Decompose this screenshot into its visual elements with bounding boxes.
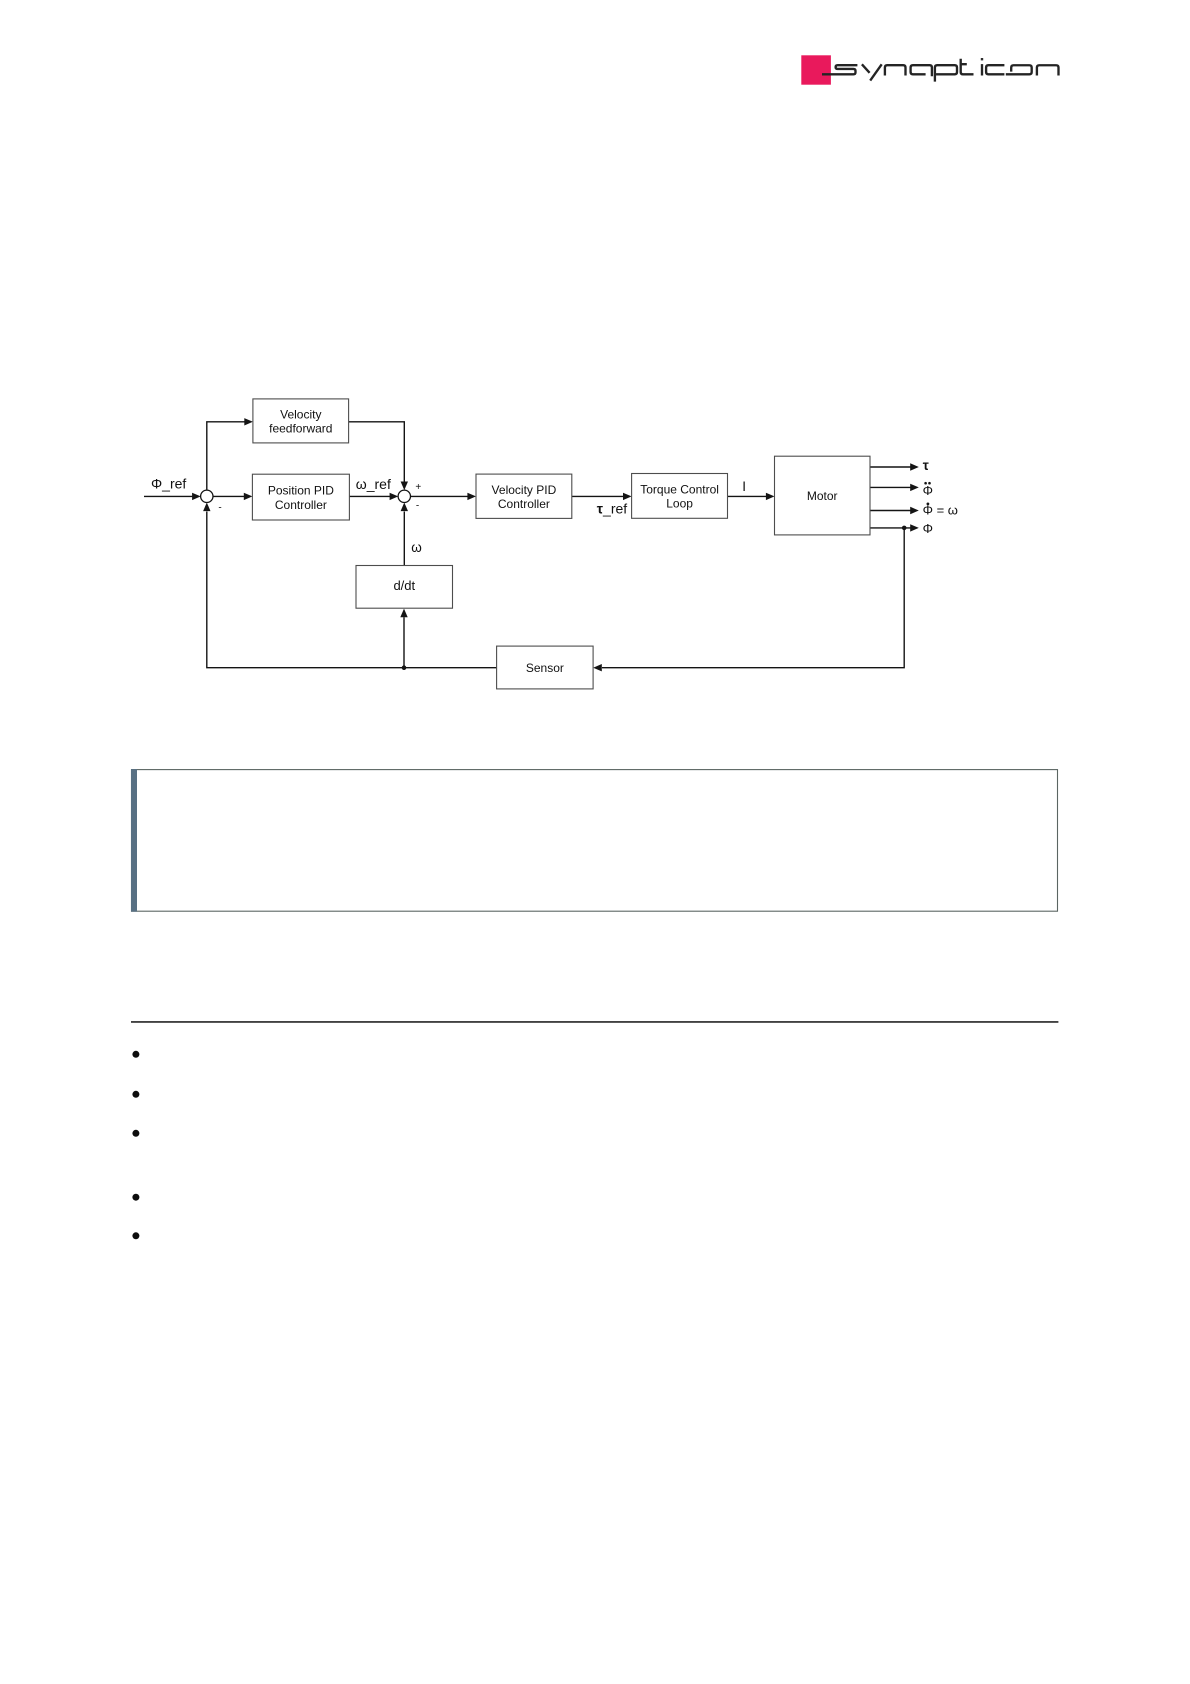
wire: sensor to left vertical up to junction1 — [207, 512, 497, 668]
arrowhead phi output — [910, 524, 919, 531]
bullet 2 — [132, 1091, 139, 1098]
note box left accent bar — [131, 769, 137, 912]
wire: tap up to d/dt — [403, 617, 405, 668]
wire: motor output phi dotdot — [870, 486, 911, 488]
wire: motor output tau — [870, 466, 911, 468]
arrowhead phi dotdot output — [910, 484, 919, 491]
wire: feedback right vertical and into sensor — [602, 528, 904, 668]
letter p — [935, 65, 957, 81]
letter c — [986, 65, 1004, 74]
summing junction 1 — [201, 490, 213, 502]
arrowhead up into junction1 bottom — [203, 503, 210, 512]
bullet 4 — [132, 1194, 139, 1201]
letter n — [885, 65, 906, 75]
svg-text:Controller: Controller — [275, 498, 327, 512]
arrowhead into Position PID — [244, 493, 253, 500]
svg-text:Velocity PID: Velocity PID — [492, 483, 557, 497]
bullet 5 — [132, 1232, 139, 1239]
svg-text:Φ: Φ — [923, 521, 933, 536]
block Velocity feedforward — [253, 399, 349, 443]
svg-text:Position PID: Position PID — [268, 483, 334, 497]
junction dot on phi output — [902, 526, 907, 531]
wire: Torque Control Loop to Motor — [728, 495, 768, 497]
arrowhead into junction2 left — [390, 493, 399, 500]
wire: d/dt up to junction2 — [403, 512, 405, 566]
svg-text:feedforward: feedforward — [269, 422, 332, 436]
svg-text:τ_ref: τ_ref — [597, 501, 627, 517]
wire: phi_ref input — [144, 495, 193, 497]
arrowhead tau output — [910, 463, 919, 470]
svg-text:-: - — [218, 503, 221, 514]
arrowhead into Torque Control Loop — [623, 493, 632, 500]
svg-text:Velocity: Velocity — [280, 407, 321, 421]
block Velocity PID Controller — [476, 474, 572, 518]
junction dot on feedback line — [402, 665, 407, 670]
diacritic dots for phi double dot — [924, 482, 927, 485]
letter s with lead-in line to square — [822, 65, 857, 74]
diacritic dot for phi dot — [927, 503, 930, 506]
arrowhead down into junction2 top — [401, 482, 408, 491]
svg-text:I: I — [742, 479, 746, 494]
svg-text:Motor: Motor — [807, 489, 838, 503]
logo mark: magenta square — [801, 55, 831, 84]
horizontal rule — [131, 1021, 1058, 1023]
svg-text:Φ: Φ — [923, 483, 933, 498]
letter y — [862, 64, 882, 80]
svg-text:Φ_ref: Φ_ref — [151, 475, 186, 491]
arrowhead phi dot output — [910, 507, 919, 514]
arrowhead up into d/dt bottom — [400, 609, 407, 618]
letter a — [911, 65, 932, 76]
wire: Position PID to junction2 — [349, 495, 391, 497]
letter t — [960, 59, 974, 75]
letter o — [1006, 65, 1032, 74]
svg-text:Controller: Controller — [498, 497, 550, 511]
block Torque Control Loop — [632, 474, 728, 519]
wire: motor output phi — [870, 527, 911, 529]
arrowhead into Velocity PID — [467, 493, 476, 500]
block Sensor — [497, 646, 593, 689]
wire: junction2 to Velocity PID — [411, 495, 469, 497]
summing junction 2 — [398, 490, 410, 502]
svg-text:Loop: Loop — [666, 497, 693, 511]
letter n final — [1037, 65, 1059, 75]
logo wordmark: synapticon — [822, 59, 1059, 82]
svg-text:d/dt: d/dt — [393, 578, 415, 593]
svg-text:Sensor: Sensor — [526, 661, 564, 675]
bullet 3 — [132, 1130, 139, 1137]
wire: junction1 to Position PID — [213, 495, 245, 497]
wire: motor output phi dot — [870, 510, 911, 512]
svg-text:Torque Control: Torque Control — [640, 482, 719, 496]
block d/dt — [356, 566, 453, 609]
svg-text:ω_ref: ω_ref — [356, 476, 391, 492]
arrowhead into Velocity feedforward — [244, 418, 253, 425]
block Position PID Controller — [252, 474, 349, 520]
svg-text:-: - — [416, 501, 419, 512]
wire: junction1 up to Velocity feedforward — [207, 422, 246, 490]
wire: Velocity PID to Torque Control Loop — [572, 495, 624, 497]
svg-text:ω: ω — [411, 540, 422, 555]
wire: Velocity feedforward down to junction2 — [349, 422, 405, 483]
arrowhead into junction1 — [192, 493, 201, 500]
svg-text:τ: τ — [923, 458, 929, 473]
note admonition box — [132, 770, 1058, 912]
arrowhead up into junction2 bottom — [401, 503, 408, 512]
arrowhead into Sensor right edge — [593, 664, 602, 671]
letter i dot — [981, 58, 983, 60]
arrowhead into Motor — [766, 493, 775, 500]
letter i stem — [981, 64, 983, 75]
block Motor — [775, 456, 871, 535]
bullet 1 — [132, 1051, 139, 1058]
svg-text:+: + — [415, 482, 421, 493]
